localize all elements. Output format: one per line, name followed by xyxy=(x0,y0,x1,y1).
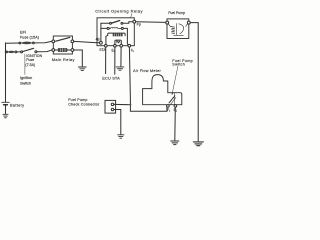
fuel pump box xyxy=(167,19,189,39)
ground (air flow meter) xyxy=(171,141,179,145)
wire +B riser xyxy=(100,23,102,41)
svg-text:Fuel Pump: Fuel Pump xyxy=(68,98,87,102)
wire resistor row right to Fc xyxy=(123,28,128,45)
node fuel pump left terminal xyxy=(166,21,169,24)
ground (check connector) xyxy=(118,135,124,138)
leader ignition switch label xyxy=(24,54,26,75)
svg-text:Check Connector: Check Connector xyxy=(68,103,100,107)
node fuel pump right terminal xyxy=(187,21,190,24)
svg-text:IGNITION: IGNITION xyxy=(26,54,42,58)
node resistor row right junction xyxy=(121,27,123,29)
wire battery negative stem xyxy=(5,105,7,114)
node resistor row left junction xyxy=(107,27,109,29)
node row2 tap xyxy=(5,51,7,53)
main relay contact xyxy=(52,37,74,42)
svg-text:Switch: Switch xyxy=(20,82,31,86)
fuel pump check connector xyxy=(105,100,116,113)
node E1 pin xyxy=(114,44,117,47)
air flow meter outline xyxy=(143,75,182,105)
fuel pump motor icon xyxy=(168,24,187,36)
wire STA to ECU xyxy=(105,47,107,74)
wire relay top row xyxy=(101,22,133,24)
svg-text:c: c xyxy=(169,111,171,113)
wire row2 battery to ignition fuse xyxy=(5,51,8,53)
main relay coil xyxy=(52,48,74,52)
fuse F1 EFI 15A xyxy=(19,42,34,44)
node E1 (air flow meter) xyxy=(174,105,177,108)
wire main relay to circuit opening relay +B xyxy=(74,41,100,42)
coil L1 xyxy=(115,40,121,45)
svg-text:Fuse (15A): Fuse (15A) xyxy=(20,34,40,39)
node L1 right pin xyxy=(120,44,123,47)
wire row2 switch to main relay coil xyxy=(37,50,52,52)
wire battery positive bus xyxy=(5,43,7,102)
leader circuit opening relay label xyxy=(131,14,132,18)
svg-text:1: 1 xyxy=(176,111,178,113)
circuit opening relay box xyxy=(97,18,134,46)
fuse F2 IGNITION 7.5A xyxy=(6,51,17,53)
label Fuel Pump Check Connector xyxy=(68,98,100,107)
junction node check connector tap xyxy=(130,104,132,106)
svg-text:Battery: Battery xyxy=(10,103,24,108)
label EFI Fuse (15A) xyxy=(20,29,40,39)
coil L2 winding xyxy=(113,33,123,36)
node Fc (air flow meter) xyxy=(167,105,170,108)
ground (E1) xyxy=(116,67,124,70)
relay contact (circuit opening relay) xyxy=(110,21,123,25)
svg-text:+B: +B xyxy=(95,38,100,42)
label IGNITION Fuse (7.5A) xyxy=(25,54,42,67)
wire check connector bottom pin to ground xyxy=(114,110,121,135)
svg-text:(7.5A): (7.5A) xyxy=(25,63,35,67)
svg-text:Main Relay: Main Relay xyxy=(52,57,75,62)
svg-text:Ignition: Ignition xyxy=(20,76,32,80)
wire row1 fuse to main relay xyxy=(34,41,52,43)
node Fp terminal xyxy=(133,20,136,23)
svg-text:c: c xyxy=(133,50,135,53)
resistor R (circuit opening relay) xyxy=(109,26,121,29)
coil L2 rail xyxy=(106,33,125,45)
ground (main relay) xyxy=(78,67,86,70)
svg-text:Fuse: Fuse xyxy=(26,58,34,62)
battery B1 xyxy=(2,102,9,104)
wire main relay coil to ground xyxy=(74,50,83,67)
wire resistor row left xyxy=(101,27,107,29)
node Fc pin xyxy=(128,44,131,47)
svg-text:Circuit Opening Relay: Circuit Opening Relay xyxy=(95,8,143,13)
svg-text:Air Flow Meter: Air Flow Meter xyxy=(133,69,161,73)
wire E1 (air flow meter) to ground xyxy=(174,107,177,140)
main relay box xyxy=(53,36,72,54)
wire E1 to ground xyxy=(120,47,122,67)
fuel pump switch blade (in air flow meter) xyxy=(169,93,176,105)
label Fuel Pump Switch xyxy=(172,59,193,67)
svg-text:ECU STA: ECU STA xyxy=(102,75,120,80)
svg-text:Fuel Pump: Fuel Pump xyxy=(168,11,185,15)
ground (battery) xyxy=(3,114,8,118)
wire E1 pin to ECU xyxy=(114,47,116,74)
svg-text:Switch: Switch xyxy=(172,62,185,66)
wire Fp to fuel pump xyxy=(136,21,166,24)
wire check connector top pin xyxy=(114,103,130,105)
wire row2 fuse to ignition switch xyxy=(17,51,21,53)
wire fuel pump to ground xyxy=(190,23,198,141)
wire row1 battery to EFI fuse xyxy=(6,42,20,44)
node STA pin xyxy=(105,44,108,47)
node +B terminal xyxy=(100,41,103,44)
label Ignition Switch xyxy=(20,76,32,85)
wire Fc vertical down xyxy=(129,47,167,111)
leader fuel pump switch label xyxy=(172,66,178,93)
ignition switch SW1 xyxy=(21,48,37,53)
svg-text:Fp: Fp xyxy=(137,23,141,27)
ground (fuel pump) xyxy=(193,142,203,146)
